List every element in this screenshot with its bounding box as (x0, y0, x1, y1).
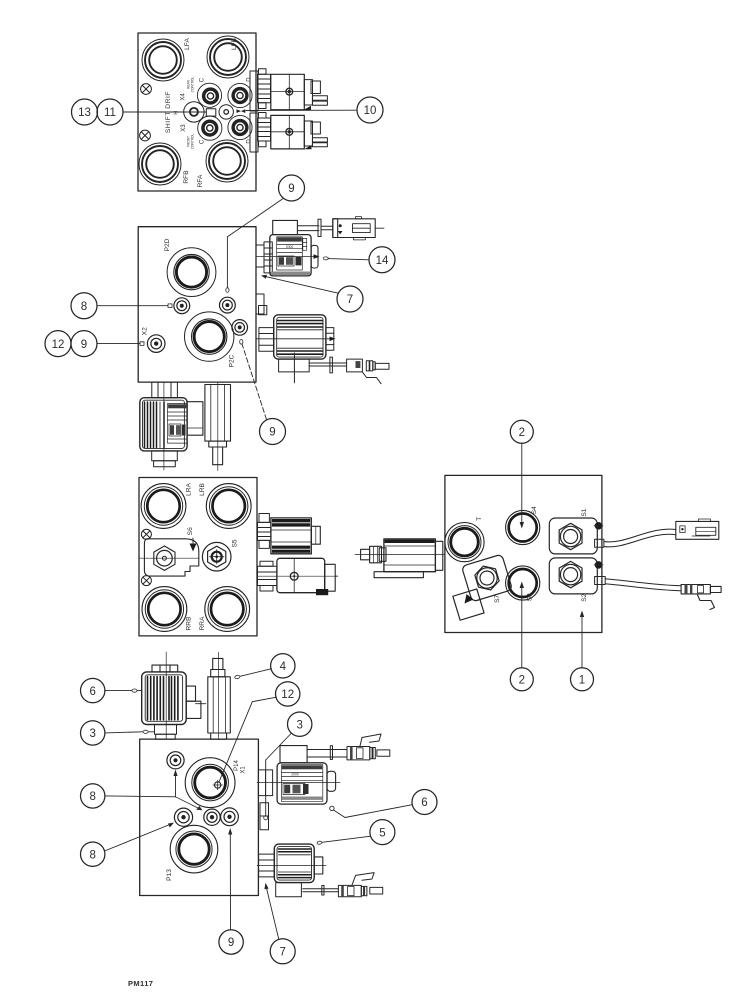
svg-text:1: 1 (579, 675, 585, 687)
callout 7 (337, 286, 363, 312)
callout 8 second (81, 842, 105, 866)
mounting screw bottom (140, 130, 151, 141)
callout 11 (97, 99, 123, 125)
top valve solenoid with label (item 6 right) (277, 763, 327, 804)
screw bottom (141, 576, 151, 586)
leader callout 6 left (105, 689, 141, 692)
port S4 (506, 510, 540, 544)
svg-text:RRB: RRB (186, 616, 193, 631)
bottom coil lower flange (152, 451, 178, 467)
svg-text:12: 12 (281, 689, 294, 701)
leader callout 2 bottom (520, 582, 524, 668)
leader to callouts 13 11 (123, 111, 206, 113)
solenoid right cap (327, 771, 336, 791)
leader to callout 10 (246, 109, 357, 111)
coil body (274, 315, 326, 359)
bottom coil lower plate (276, 883, 302, 897)
top coil right cap (311, 526, 320, 544)
svg-text:2: 2 (519, 427, 525, 439)
S6 relief valve body (139, 539, 199, 576)
callout 13 (72, 99, 98, 125)
S6 arrow (190, 538, 197, 552)
svg-text:2000: 2000 (291, 773, 299, 777)
manifold block D body (445, 475, 602, 632)
callout 3 right (288, 712, 312, 736)
svg-text:H: H (174, 111, 180, 115)
callout 2 bottom (510, 668, 533, 691)
gauge port lower item 9 (232, 320, 248, 336)
bottom coil centerline (163, 382, 165, 470)
callout 9 (219, 930, 243, 954)
bottom coil valve item 5 (274, 844, 314, 883)
callout 9 bottom (260, 419, 286, 445)
coil right hex (326, 328, 334, 351)
svg-text:P2D: P2D (164, 238, 171, 251)
svg-text:CONTROL: CONTROL (190, 133, 194, 149)
wire connector plug (333, 217, 384, 240)
leader callout 9 (228, 828, 232, 930)
leader callout 12 9 (98, 342, 145, 346)
manifold block E body (140, 739, 259, 895)
coil stripes (278, 321, 323, 355)
upper solenoid valve body (271, 74, 305, 109)
top coil body with dark bands (271, 518, 311, 554)
svg-text:2: 2 (519, 675, 525, 687)
svg-text:8: 8 (89, 849, 95, 861)
chamfer line (176, 797, 203, 811)
svg-text:3: 3 (296, 719, 302, 731)
svg-text:P14: P14 (234, 760, 240, 771)
callout 1 (571, 668, 594, 691)
solenoid centerline (355, 554, 445, 556)
port LFB (207, 36, 249, 78)
leader callout 14 (323, 257, 369, 260)
svg-text:S6: S6 (187, 527, 194, 535)
bottom valve body (277, 558, 325, 592)
bottom coil stripes (145, 402, 165, 448)
callout 8 first (81, 784, 105, 808)
cavity boss 1 (258, 770, 272, 796)
svg-text:LRB: LRB (199, 482, 206, 495)
svg-text:8: 8 (81, 301, 87, 313)
svg-text:S3: S3 (527, 593, 534, 601)
svg-text:5: 5 (379, 827, 385, 839)
port RRA (205, 587, 250, 632)
bottom valve left nut (258, 561, 277, 591)
leader callout 4 (234, 669, 271, 679)
top cable tube (307, 746, 347, 760)
svg-text:X4: X4 (181, 93, 187, 101)
svg-text:9: 9 (288, 183, 294, 195)
coil label (271, 237, 310, 275)
port H (184, 102, 204, 122)
svg-text:C: C (200, 77, 206, 82)
port LFA (142, 39, 184, 81)
center gauge port (219, 105, 233, 119)
svg-text:9: 9 (269, 427, 275, 439)
bottom coil left nut (259, 854, 275, 877)
bottom cable (303, 886, 339, 896)
valve centerline (257, 782, 340, 784)
bottom coil connector housing (187, 402, 203, 436)
coil centerline arrow (256, 338, 331, 340)
S1 screw (594, 522, 603, 529)
port T (445, 523, 484, 562)
callout 9 left (71, 331, 97, 357)
cavity boss (256, 242, 272, 273)
coil right boss (311, 245, 318, 268)
callout 14 (369, 247, 395, 273)
block D left solenoid (361, 539, 443, 578)
port P14 (185, 758, 235, 808)
S1 cable (595, 529, 676, 547)
callout 6 right (412, 790, 437, 815)
bottom neck (152, 382, 178, 398)
svg-text:10: 10 (364, 105, 377, 117)
bottom cartridge valve (205, 385, 231, 465)
callout 12 (276, 682, 300, 706)
leader callout 6 right (334, 805, 413, 818)
leader callout 9 top (226, 198, 284, 292)
leader callout 9 bottom (240, 339, 267, 419)
svg-text:S1: S1 (581, 508, 588, 516)
leader callout 12 (219, 697, 276, 782)
upper solenoid connector (304, 80, 327, 106)
top coil connector (186, 686, 206, 718)
bottom coil stripes (279, 849, 311, 878)
svg-text:P2C: P2C (229, 354, 236, 367)
S5 plug (202, 542, 231, 571)
callout 6 left (81, 678, 105, 702)
svg-text:3: 3 (89, 728, 95, 740)
bottom coil body (140, 398, 187, 451)
svg-text:P13: P13 (166, 869, 173, 881)
svg-text:6: 6 (421, 797, 427, 809)
top coil centerline (165, 652, 167, 739)
port RFA (206, 140, 248, 182)
svg-text:12: 12 (52, 339, 65, 351)
bottom valve right adjuster (316, 564, 338, 595)
svg-text:RRA: RRA (199, 616, 206, 631)
top coil stripes (148, 677, 178, 720)
svg-text:6: 6 (89, 686, 95, 698)
coil neck (155, 725, 177, 740)
leader callout 7 bottom (264, 883, 278, 940)
lower solenoid connector (304, 121, 327, 147)
S2 cable (595, 577, 682, 591)
svg-text:X1: X1 (241, 766, 247, 774)
manifold block C body (139, 478, 257, 636)
svg-text:8: 8 (89, 791, 95, 803)
bottom cable connector (338, 873, 382, 897)
manifold block B body (138, 227, 256, 382)
port S3 (506, 566, 540, 600)
orifice square (206, 109, 216, 116)
cartridge centerline (217, 382, 219, 471)
top coil item 6 (142, 672, 187, 725)
manifold block A body (138, 33, 256, 191)
port RFB (139, 143, 181, 185)
port RRB (142, 587, 187, 632)
callout 8 (71, 293, 97, 319)
bottom coil right cap (314, 857, 323, 874)
svg-text:2000: 2000 (286, 245, 294, 249)
port X2 (147, 335, 165, 353)
svg-text:S4: S4 (531, 506, 538, 514)
callout 2 top (510, 420, 533, 443)
svg-text:7: 7 (279, 947, 285, 959)
svg-text:11: 11 (104, 107, 116, 119)
leader callout 3 right (264, 733, 292, 820)
coil centerline and arrow (256, 256, 316, 258)
svg-text:RFB: RFB (183, 170, 190, 184)
bottom coil label (167, 404, 187, 444)
svg-text:X3: X3 (181, 124, 187, 132)
callout 3 left (81, 721, 105, 745)
svg-text:14: 14 (376, 255, 389, 267)
svg-text:T: T (476, 517, 483, 521)
S1 cable connector (676, 519, 719, 539)
cartridge centerline (218, 652, 220, 739)
svg-text:S2: S2 (581, 593, 588, 601)
solenoid cavity C front (198, 116, 222, 140)
lower solenoid valve body (271, 115, 305, 148)
gauge ports row (174, 808, 192, 826)
top coil cap (152, 665, 178, 672)
cable with connector (309, 357, 389, 384)
coil left nut (259, 328, 274, 352)
leader callout 8 (98, 304, 173, 308)
bowtie marker (237, 109, 246, 113)
mounting screw top (141, 84, 152, 95)
S1 valve (549, 518, 597, 554)
wire lead tube (297, 219, 332, 236)
callout 10 (357, 97, 383, 123)
top coil nut stack (258, 514, 271, 549)
leader callout 7 (261, 275, 338, 293)
solenoid cavity D front (228, 115, 252, 139)
S2 screw (594, 562, 603, 569)
callout 7 bottom (270, 939, 295, 964)
gauge port top item 8 (167, 752, 184, 769)
svg-text:4: 4 (280, 661, 287, 673)
coil lower plate (279, 359, 310, 372)
solenoid top housing (280, 746, 307, 763)
callout 12 (45, 331, 71, 357)
bottom valve centerline (258, 575, 337, 577)
upper solenoid valve nut stack (250, 69, 271, 111)
svg-text:LFA: LFA (184, 38, 191, 50)
leader callout 1 (580, 611, 584, 668)
leader callout 3 left (105, 730, 154, 733)
gauge port right item 9 (220, 297, 236, 313)
P14 center orifice (213, 780, 222, 789)
lower solenoid valve nut stack (250, 113, 271, 153)
svg-text:7: 7 (347, 294, 353, 306)
S7 arrow (465, 594, 474, 604)
port P2C (185, 312, 234, 361)
solenoid label rows (281, 765, 322, 802)
solenoid coil body with label (270, 235, 311, 276)
svg-text:S7: S7 (494, 595, 501, 603)
black wedge lower (304, 145, 311, 149)
bottom coil centerline (257, 865, 326, 867)
svg-text:LFB: LFB (231, 37, 238, 50)
port LRB (206, 484, 251, 529)
callout 9 top (279, 175, 305, 201)
screw top (141, 529, 151, 539)
port P2D (167, 248, 216, 297)
cartridge item 4 (208, 658, 231, 739)
leader callout 5 (317, 836, 371, 844)
callout 4 (271, 654, 295, 678)
solenoid cavity D rear (228, 83, 252, 107)
svg-text:CONTROL: CONTROL (190, 76, 194, 92)
cavity boss 2 (260, 803, 269, 830)
grease fitting (330, 806, 334, 810)
wire drop line (293, 353, 295, 383)
leader callout 2 top (520, 443, 524, 528)
svg-text:PM117: PM117 (128, 979, 153, 988)
svg-text:LRA: LRA (186, 482, 193, 495)
port P13 (170, 825, 218, 873)
S2 valve (549, 558, 597, 594)
S2 cable connector (681, 585, 721, 610)
svg-text:9: 9 (81, 339, 87, 351)
top cable connector (347, 734, 390, 760)
S7 tilted valve (445, 554, 516, 620)
solenoid cavity C rear (197, 83, 221, 107)
coil top connector housing (273, 220, 298, 234)
svg-text:S5: S5 (232, 539, 239, 547)
black wedge upper (304, 106, 312, 110)
callout 5 (370, 820, 395, 845)
leader callout 8 second (105, 823, 175, 851)
leader callout 8 first (105, 770, 178, 797)
port LRA (141, 484, 186, 529)
svg-text:13: 13 (78, 107, 91, 119)
svg-text:C: C (200, 139, 206, 144)
gauge port left item 8 (174, 298, 190, 314)
svg-text:9: 9 (228, 937, 234, 949)
svg-text:RFA: RFA (197, 174, 204, 187)
cavity boss (256, 294, 267, 315)
svg-text:X2: X2 (142, 327, 149, 335)
